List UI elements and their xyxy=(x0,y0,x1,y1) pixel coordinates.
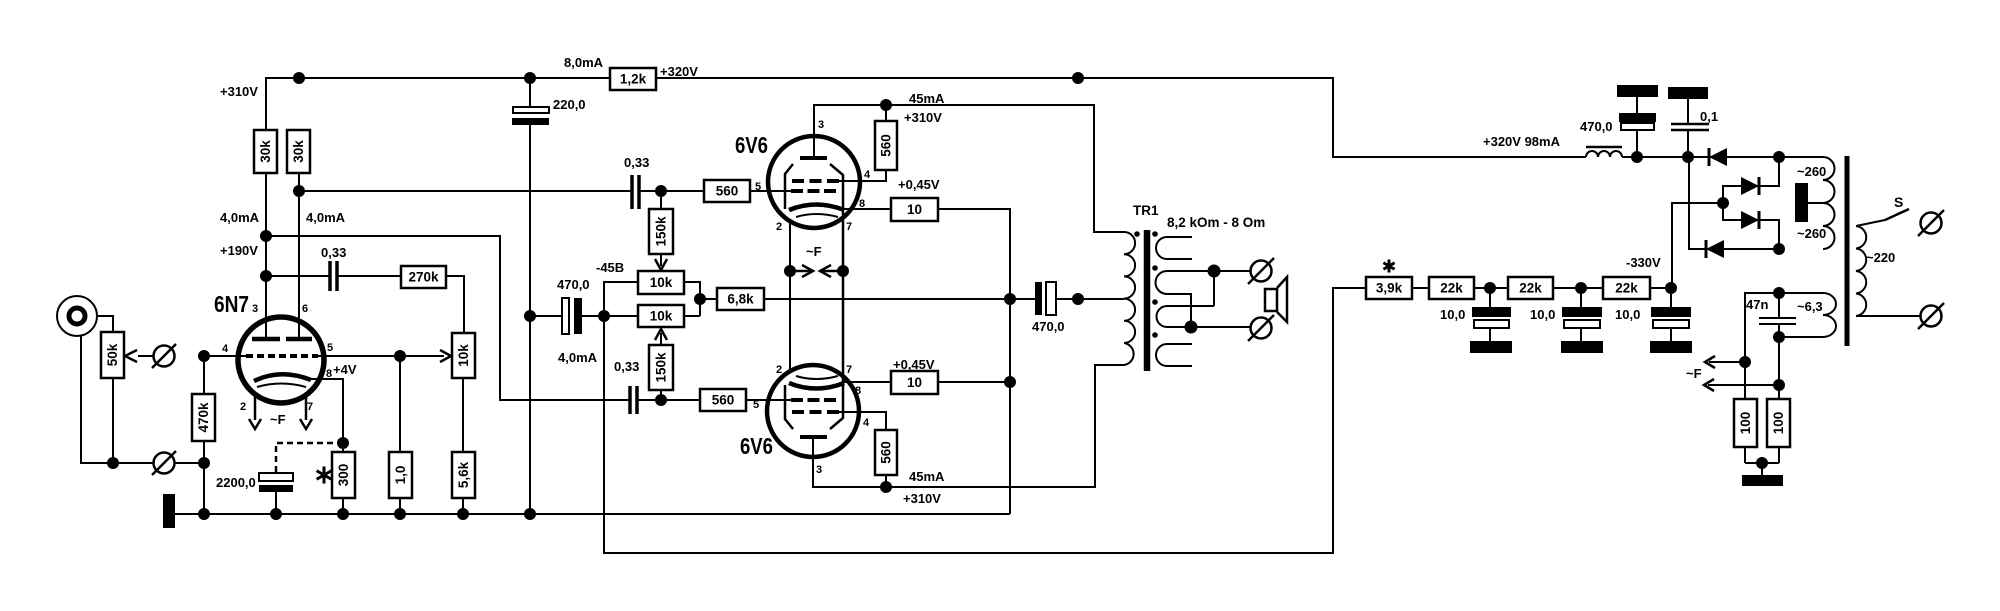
svg-text:8,0mA: 8,0mA xyxy=(564,55,604,70)
svg-text:10,0: 10,0 xyxy=(1615,307,1640,322)
svg-text:~6,3: ~6,3 xyxy=(1797,299,1823,314)
svg-text:100: 100 xyxy=(1738,412,1753,435)
svg-text:22k: 22k xyxy=(1519,281,1542,296)
svg-text:10k: 10k xyxy=(650,309,673,324)
svg-text:~220: ~220 xyxy=(1866,250,1895,265)
svg-text:560: 560 xyxy=(879,441,894,464)
svg-text:470k: 470k xyxy=(196,402,211,433)
svg-text:1,2k: 1,2k xyxy=(620,72,647,87)
svg-text:2: 2 xyxy=(776,221,782,233)
svg-text:30k: 30k xyxy=(258,140,273,163)
svg-text:~F: ~F xyxy=(1686,366,1702,381)
svg-text:4,0mA: 4,0mA xyxy=(220,210,260,225)
svg-text:~F: ~F xyxy=(806,244,822,259)
svg-text:+310V: +310V xyxy=(904,110,942,125)
svg-text:5,6k: 5,6k xyxy=(456,461,471,488)
svg-text:5: 5 xyxy=(755,181,761,193)
svg-text:+320V: +320V xyxy=(660,64,698,79)
svg-text:22k: 22k xyxy=(1615,281,1638,296)
svg-text:+320V 98mA: +320V 98mA xyxy=(1483,134,1561,149)
svg-text:10k: 10k xyxy=(650,275,673,290)
svg-text:7: 7 xyxy=(307,401,313,413)
svg-text:6V6: 6V6 xyxy=(740,433,773,459)
svg-text:+190V: +190V xyxy=(220,243,258,258)
svg-text:30k: 30k xyxy=(291,140,306,163)
svg-text:270k: 270k xyxy=(408,270,439,285)
svg-text:10: 10 xyxy=(907,375,922,390)
svg-text:6,8k: 6,8k xyxy=(727,292,754,307)
svg-text:10,0: 10,0 xyxy=(1440,307,1465,322)
svg-text:300: 300 xyxy=(336,464,351,487)
svg-text:+0,45V: +0,45V xyxy=(893,357,935,372)
svg-text:TR1: TR1 xyxy=(1133,203,1159,218)
svg-text:470,0: 470,0 xyxy=(557,277,590,292)
svg-text:4: 4 xyxy=(864,169,871,181)
svg-text:+310V: +310V xyxy=(903,491,941,506)
svg-text:10k: 10k xyxy=(456,344,471,367)
svg-text:2: 2 xyxy=(240,401,246,413)
svg-text:0,1: 0,1 xyxy=(1700,109,1718,124)
svg-text:+4V: +4V xyxy=(333,362,357,377)
svg-text:+0,45V: +0,45V xyxy=(898,177,940,192)
svg-text:6V6: 6V6 xyxy=(735,132,768,158)
svg-text:560: 560 xyxy=(879,134,894,157)
svg-text:470,0: 470,0 xyxy=(1580,119,1613,134)
svg-text:50k: 50k xyxy=(105,343,120,366)
svg-text:8: 8 xyxy=(859,198,865,210)
svg-text:100: 100 xyxy=(1771,412,1786,435)
svg-text:560: 560 xyxy=(716,184,739,199)
svg-text:3: 3 xyxy=(252,303,258,315)
svg-text:1,0: 1,0 xyxy=(393,466,408,485)
svg-text:45mA: 45mA xyxy=(909,91,945,106)
svg-text:7: 7 xyxy=(846,221,852,233)
svg-text:0,33: 0,33 xyxy=(614,359,639,374)
svg-text:220,0: 220,0 xyxy=(553,97,586,112)
svg-text:~260: ~260 xyxy=(1797,164,1826,179)
svg-text:45mA: 45mA xyxy=(909,469,945,484)
svg-text:150k: 150k xyxy=(654,216,669,247)
svg-text:0,33: 0,33 xyxy=(321,245,346,260)
svg-text:0,33: 0,33 xyxy=(624,155,649,170)
svg-text:4,0mA: 4,0mA xyxy=(306,210,346,225)
svg-text:-330V: -330V xyxy=(1626,255,1661,270)
svg-text:8,2 kOm - 8 Om: 8,2 kOm - 8 Om xyxy=(1167,215,1265,230)
svg-text:3: 3 xyxy=(816,464,822,476)
svg-text:~F: ~F xyxy=(270,412,286,427)
svg-text:6N7: 6N7 xyxy=(214,291,249,317)
svg-text:22k: 22k xyxy=(1440,281,1463,296)
svg-text:8: 8 xyxy=(855,385,861,397)
svg-text:~260: ~260 xyxy=(1797,226,1826,241)
svg-text:4,0mA: 4,0mA xyxy=(558,350,598,365)
svg-text:10: 10 xyxy=(907,202,922,217)
svg-text:3,9k: 3,9k xyxy=(1376,281,1403,296)
svg-text:7: 7 xyxy=(846,364,852,376)
svg-text:47n: 47n xyxy=(1746,297,1768,312)
svg-text:560: 560 xyxy=(712,393,735,408)
svg-text:4: 4 xyxy=(222,343,229,355)
svg-text:+310V: +310V xyxy=(220,84,258,99)
svg-text:3: 3 xyxy=(818,119,824,131)
svg-text:10,0: 10,0 xyxy=(1530,307,1555,322)
svg-text:2: 2 xyxy=(776,364,782,376)
svg-text:470,0: 470,0 xyxy=(1032,319,1065,334)
svg-text:2200,0: 2200,0 xyxy=(216,475,256,490)
svg-text:5: 5 xyxy=(753,399,759,411)
svg-text:6: 6 xyxy=(302,303,308,315)
svg-text:-45B: -45B xyxy=(596,260,624,275)
svg-text:S: S xyxy=(1894,194,1903,210)
svg-text:8: 8 xyxy=(326,368,332,380)
svg-text:150k: 150k xyxy=(654,352,669,383)
svg-text:5: 5 xyxy=(327,342,333,354)
svg-text:4: 4 xyxy=(863,417,870,429)
